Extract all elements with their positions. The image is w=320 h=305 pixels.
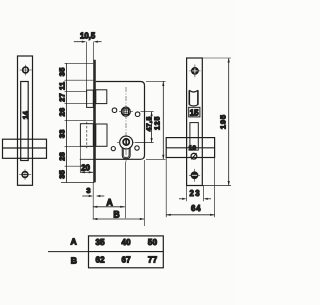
svg-text:B: B (113, 210, 119, 220)
svg-text:50: 50 (148, 238, 158, 247)
svg-text:35: 35 (57, 67, 66, 76)
svg-text:A: A (70, 237, 76, 247)
svg-text:14: 14 (21, 111, 30, 119)
svg-text:64: 64 (191, 204, 201, 213)
svg-text:195: 195 (218, 114, 227, 129)
svg-text:33: 33 (57, 129, 66, 138)
svg-text:10: 10 (189, 145, 197, 152)
svg-text:47,5: 47,5 (146, 116, 153, 131)
svg-text:10,5: 10,5 (80, 32, 96, 41)
svg-text:77: 77 (148, 255, 158, 264)
svg-text:20: 20 (81, 163, 90, 172)
svg-text:3: 3 (86, 186, 90, 195)
svg-text:15: 15 (190, 109, 199, 118)
svg-text:26: 26 (57, 108, 66, 117)
svg-text:35: 35 (95, 238, 105, 247)
svg-text:A: A (106, 198, 113, 208)
svg-text:35: 35 (57, 170, 66, 179)
svg-text:125: 125 (155, 116, 162, 130)
svg-text:23: 23 (190, 189, 201, 198)
svg-text:B: B (71, 256, 77, 266)
svg-text:40: 40 (121, 238, 131, 247)
svg-text:28: 28 (57, 152, 66, 161)
svg-text:11: 11 (57, 82, 66, 90)
svg-text:27: 27 (57, 93, 66, 102)
svg-text:67: 67 (121, 255, 131, 264)
svg-text:62: 62 (95, 255, 105, 264)
